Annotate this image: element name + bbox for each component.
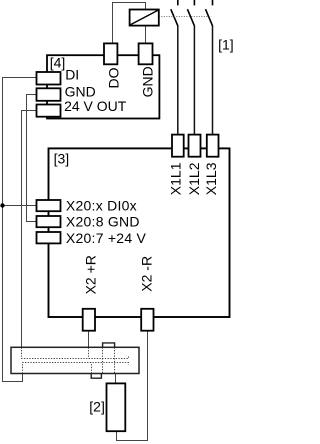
svg-text:[2]: [2] [89,398,105,414]
svg-text:GND: GND [65,83,96,99]
svg-text:X2 -R: X2 -R [138,256,154,292]
svg-text:X1L3: X1L3 [203,162,219,195]
svg-text:GND: GND [140,66,156,97]
svg-text:[4]: [4] [50,55,66,71]
svg-text:X1L2: X1L2 [186,162,202,195]
svg-text:[1]: [1] [218,37,234,53]
svg-text:X20:7 +24 V: X20:7 +24 V [66,230,147,246]
svg-text:X20:8 GND: X20:8 GND [66,213,140,229]
svg-text:DO: DO [106,67,122,88]
svg-text:X2 +R: X2 +R [83,255,99,294]
svg-text:[3]: [3] [54,151,70,167]
svg-text:X20:x DI0x: X20:x DI0x [66,197,137,213]
svg-text:24 V OUT: 24 V OUT [64,98,127,114]
svg-text:DI: DI [65,67,79,83]
svg-text:X1L1: X1L1 [168,162,184,195]
